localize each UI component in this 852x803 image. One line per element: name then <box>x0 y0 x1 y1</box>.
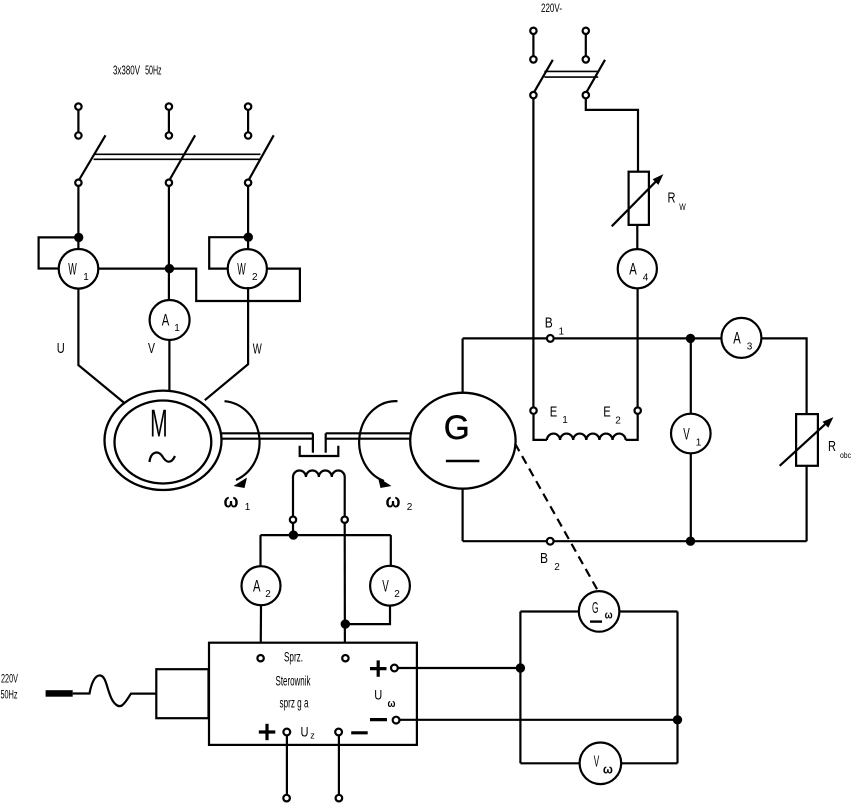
label omega2 <box>386 492 413 514</box>
svg-text:V: V <box>382 577 389 596</box>
svg-text:z: z <box>310 731 315 741</box>
mains cable <box>73 675 157 706</box>
svg-text:V: V <box>594 753 600 770</box>
DC switch linkage bar <box>544 71 598 77</box>
wire V1 bottom lead <box>690 453 692 541</box>
wire phase W from switch to W2 <box>247 186 249 251</box>
shaft generator side <box>326 433 411 452</box>
wire W2 voltage-coil loop <box>209 237 248 268</box>
wire plus from controller <box>398 667 521 669</box>
wire Uz plus down <box>286 735 288 794</box>
wire tacho rail right <box>676 612 678 764</box>
svg-text:G: G <box>444 409 470 447</box>
svg-text:V: V <box>683 425 690 444</box>
resistor Rw <box>612 172 664 227</box>
svg-text:V: V <box>148 340 155 357</box>
svg-text:G: G <box>592 600 599 617</box>
svg-text:2: 2 <box>615 416 621 427</box>
wire V1 top lead <box>690 338 692 413</box>
svg-text:R: R <box>828 439 836 455</box>
svg-text:W: W <box>68 260 77 279</box>
svg-text:2: 2 <box>394 589 400 600</box>
wire Robc down <box>805 466 807 541</box>
mains connector box <box>156 669 208 718</box>
node V1 top <box>687 335 694 342</box>
wire A4 down to E2 <box>636 288 638 407</box>
svg-text:220V-: 220V- <box>541 3 562 15</box>
svg-text:W: W <box>679 202 686 213</box>
ammeter A1 <box>150 300 190 340</box>
mains plug <box>46 690 73 697</box>
svg-text:ω: ω <box>386 492 401 513</box>
node V2-clutch junction <box>342 621 349 628</box>
supply terminal L3 <box>245 103 251 138</box>
label omega1 <box>224 492 251 514</box>
svg-text:50Hz: 50Hz <box>1 690 18 702</box>
svg-text:2: 2 <box>407 502 413 513</box>
dashed link G to tacho <box>515 444 598 591</box>
wire minus from controller <box>400 719 678 721</box>
svg-text:M: M <box>150 403 168 446</box>
resistor Robc <box>780 414 834 466</box>
ammeter A4 <box>618 249 657 288</box>
wire W1 voltage-coil loop <box>39 237 79 268</box>
wattmeter W2 <box>228 249 267 288</box>
minus sign output <box>370 718 387 721</box>
svg-text:1: 1 <box>696 438 702 449</box>
voltmeter V1 <box>671 414 711 454</box>
label U omega <box>374 687 395 711</box>
svg-text:R: R <box>668 191 676 207</box>
label B2 <box>540 550 560 573</box>
svg-text:1: 1 <box>559 327 565 338</box>
svg-text:E: E <box>603 404 611 421</box>
svg-text:1: 1 <box>245 502 251 513</box>
switch Q1 blade pole 1 <box>75 135 105 186</box>
wire V junction to W2 right side <box>169 269 300 301</box>
svg-text:3: 3 <box>747 342 753 353</box>
svg-text:ω: ω <box>388 698 396 710</box>
svg-text:B: B <box>545 315 553 332</box>
wire V2 bottom to clutch lead <box>345 606 390 625</box>
switch Q1 linkage bar <box>94 154 261 159</box>
clutch coil terminal right <box>342 517 348 523</box>
terminal Uz minus bottom <box>336 795 343 802</box>
switch Q1 blade pole 3 <box>245 135 274 186</box>
clutch coil <box>293 471 345 517</box>
wire tacho rail top <box>520 610 677 612</box>
svg-text:220V: 220V <box>1 674 18 686</box>
label 220V 50Hz mains <box>1 674 19 702</box>
label B1 <box>545 315 565 338</box>
wire A2 bottom to controller <box>260 605 262 655</box>
svg-text:ω: ω <box>603 762 613 777</box>
svg-text:obc: obc <box>840 451 851 460</box>
minus sign Uz <box>351 731 368 734</box>
wire W to motor <box>205 287 248 400</box>
voltmeter V2 <box>370 566 410 606</box>
label 3x380V 50Hz <box>113 63 162 78</box>
wire tacho rail left <box>519 612 521 764</box>
wire W1 to V junction <box>98 268 169 270</box>
arrow omega2 rotation <box>359 401 397 488</box>
wire G bottom lead <box>462 488 464 541</box>
wire A2-V2 rail <box>261 534 391 536</box>
svg-text:ω: ω <box>605 610 613 622</box>
node at W2 top <box>245 234 252 241</box>
supply terminal L2 <box>166 103 172 138</box>
wire G top lead <box>462 338 464 393</box>
svg-text:4: 4 <box>643 273 649 284</box>
svg-text:ω: ω <box>224 492 239 513</box>
svg-text:3x380V: 3x380V <box>113 63 140 78</box>
label Rw <box>668 191 686 214</box>
svg-text:W: W <box>253 341 263 358</box>
controller terminal clutch B <box>342 655 348 661</box>
wire to A2 <box>259 535 261 566</box>
controller terminal clutch A <box>257 655 263 661</box>
label E1 <box>550 404 568 427</box>
terminal Uz plus <box>283 729 290 736</box>
svg-text:A: A <box>253 577 261 596</box>
wire armature top B1 line <box>463 337 722 339</box>
terminal Uomega minus <box>393 717 400 724</box>
label E2 <box>603 404 621 427</box>
svg-text:U: U <box>374 687 382 703</box>
DC switch blade pole 2 <box>583 60 605 99</box>
svg-text:U: U <box>301 724 309 740</box>
svg-text:2: 2 <box>554 562 560 573</box>
svg-text:2: 2 <box>265 589 271 600</box>
svg-text:1: 1 <box>83 272 89 283</box>
plus sign output <box>370 660 387 676</box>
node V junction <box>166 265 173 272</box>
tachogenerator Gomega <box>579 591 620 632</box>
svg-text:Sterownik: Sterownik <box>276 674 311 689</box>
coupling sleeve bracket <box>300 446 339 456</box>
terminal B2 <box>547 538 554 545</box>
svg-text:A: A <box>629 260 637 279</box>
wire A3 to Robc <box>761 338 806 414</box>
svg-text:2: 2 <box>252 272 258 283</box>
wire clutch left lead <box>292 523 294 535</box>
svg-text:1: 1 <box>174 323 180 334</box>
plus sign Uz <box>259 724 276 740</box>
wire Rw to A4 <box>636 225 638 249</box>
svg-text:W: W <box>237 260 246 279</box>
wire DC pole2 to Rw <box>586 98 638 171</box>
terminal B1 <box>547 335 554 342</box>
wire V to motor <box>168 339 170 390</box>
svg-text:B: B <box>540 550 548 567</box>
DC supply terminal pole 2 <box>583 28 589 63</box>
ammeter A3 <box>721 318 761 358</box>
svg-text:A: A <box>733 329 741 348</box>
svg-text:sprz g a: sprz g a <box>280 696 309 711</box>
terminal E1 <box>530 407 536 413</box>
arrow omega1 rotation <box>225 401 260 488</box>
terminal Uomega plus <box>391 665 398 672</box>
wire tacho rail bottom <box>520 762 677 764</box>
node minus rail <box>674 716 681 723</box>
node V1 bottom <box>687 538 694 545</box>
ammeter A2 <box>242 566 281 605</box>
svg-text:50Hz: 50Hz <box>145 63 162 78</box>
DC switch blade pole 1 <box>530 60 553 99</box>
wire DC pole1 down to E1 <box>532 98 534 407</box>
field winding E1-E2 <box>534 414 638 440</box>
terminal Uz plus bottom <box>283 795 290 802</box>
wire Uz minus down <box>338 735 340 794</box>
motor M <box>105 391 222 490</box>
node plus rail <box>517 664 524 671</box>
terminal E2 <box>635 407 641 413</box>
wattmeter W1 <box>59 249 99 289</box>
supply terminal L1 <box>75 103 81 138</box>
node clutch left <box>290 532 297 539</box>
terminal Uz minus <box>335 729 342 736</box>
DC supply terminal pole 1 <box>530 28 536 63</box>
wire phase V from switch through junction <box>168 186 170 300</box>
wire to V2 <box>390 535 392 566</box>
label Robc <box>828 439 851 460</box>
generator G <box>410 393 515 489</box>
wire phase U from switch to W1 <box>77 186 79 249</box>
clutch coil terminal left <box>290 517 296 523</box>
shaft motor side <box>221 433 313 452</box>
node at W1 top <box>75 234 82 241</box>
svg-text:Sprz.: Sprz. <box>284 650 303 665</box>
controller box Sterownik <box>209 643 417 745</box>
svg-text:U: U <box>57 340 65 357</box>
wire armature bottom B2 line <box>463 540 807 542</box>
svg-text:1: 1 <box>562 415 568 426</box>
voltmeter Vomega <box>580 743 622 785</box>
label Uz <box>301 724 316 741</box>
switch Q1 blade pole 2 <box>166 135 195 186</box>
svg-text:A: A <box>162 311 170 330</box>
wire clutch right lead down <box>344 523 346 655</box>
wire U to motor <box>78 288 124 402</box>
svg-text:E: E <box>550 404 558 421</box>
